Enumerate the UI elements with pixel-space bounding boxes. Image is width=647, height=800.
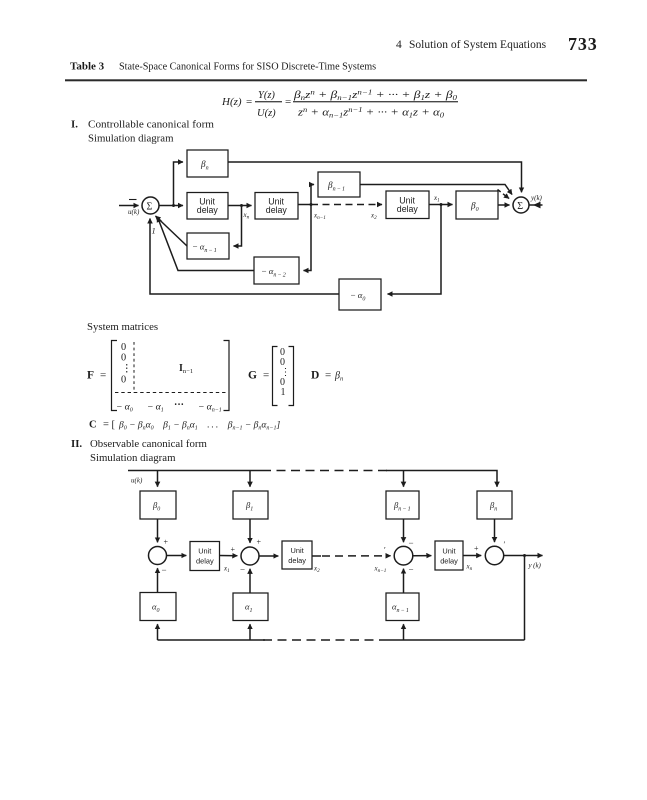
wire -a(n-1) to summer [156, 216, 188, 246]
svg-text:xn−1: xn−1 [313, 212, 326, 222]
gain an-1 [386, 593, 419, 621]
summer S2 [513, 197, 529, 213]
svg-text:4: 4 [396, 39, 402, 51]
svg-text:+: + [164, 538, 169, 547]
svg-text:−: − [162, 565, 167, 575]
svg-text:0: 0 [121, 375, 126, 386]
svg-text:α0: α0 [152, 602, 159, 615]
svg-text:u(k): u(k) [131, 477, 143, 485]
gain Bn [187, 150, 228, 177]
svg-text:− αn − 1: − αn − 1 [192, 242, 217, 255]
transfer function H(z) [221, 89, 458, 120]
svg-text:x1: x1 [433, 194, 440, 204]
svg-text:U(z): U(z) [257, 108, 276, 119]
gain -a0 [339, 279, 381, 310]
svg-text:xn: xn [466, 563, 473, 573]
svg-text:Unit: Unit [291, 546, 304, 555]
svg-text:βnzn + βn−1zn−1 + ··· + β1z +: βnzn + βn−1zn−1 + ··· + β1z + β0 [293, 89, 458, 103]
svg-text:− αn−1: − αn−1 [198, 402, 222, 414]
wire a1 to T2 [249, 569, 251, 593]
unit delay U3 [386, 191, 429, 219]
summer T3 [394, 546, 413, 565]
wire U2 out [298, 204, 311, 206]
svg-text:Controllable canonical form: Controllable canonical form [88, 119, 215, 131]
svg-text:y(k): y(k) [528, 562, 542, 570]
gain a0 [140, 593, 176, 621]
wire Bn to summer T4 [494, 519, 496, 542]
svg-text:xn−1: xn−1 [374, 565, 387, 575]
svg-text:=: = [100, 370, 106, 382]
matrix F dashed horizontal divider [115, 392, 226, 394]
wire B0 to output summer [498, 204, 510, 206]
svg-text:−: − [240, 565, 245, 575]
svg-text:=: = [263, 370, 269, 382]
node xn junction [240, 204, 243, 207]
wire an-1 to T3 [403, 569, 405, 593]
svg-text:In−1: In−1 [179, 363, 193, 375]
svg-text:···: ··· [174, 400, 184, 411]
svg-text:=: = [285, 96, 291, 108]
svg-text:x2: x2 [313, 565, 320, 575]
gain Bn-1 [386, 491, 419, 519]
wire drop to B0 [157, 471, 159, 487]
gain -a(n-2) [254, 257, 299, 284]
svg-text:I.: I. [71, 119, 78, 131]
gain Bn [477, 491, 512, 519]
svg-text:zn + αn−1zn−1 + ··· + α1z + α0: zn + αn−1zn−1 + ··· + α1z + α0 [297, 106, 445, 120]
wire V1 to T2 [220, 555, 238, 557]
svg-text:βn: βn [334, 371, 343, 383]
svg-text:Simulation diagram: Simulation diagram [88, 133, 174, 145]
matrix F right bracket [224, 341, 230, 411]
svg-text:delay: delay [288, 556, 306, 565]
matrix G left bracket [273, 347, 278, 406]
unit delay U2 [255, 193, 298, 220]
svg-text:II.: II. [71, 438, 82, 450]
wire output y(k) [529, 204, 543, 206]
svg-text:+: + [257, 538, 262, 547]
wire -a(n-2) to summer [158, 217, 255, 271]
matrix G right bracket [289, 347, 294, 406]
svg-text:Unit: Unit [198, 547, 211, 556]
wire bottom up to a1 [249, 624, 251, 640]
svg-text:+: + [231, 545, 236, 554]
wire drop to B1 [249, 471, 251, 487]
svg-text:0: 0 [121, 342, 126, 353]
node x1 junction [440, 203, 443, 206]
svg-text:Observable canonical form: Observable canonical form [90, 438, 208, 450]
unit delay V1 [190, 542, 220, 571]
wire B1 to summer T2 [249, 519, 251, 543]
svg-text:1: 1 [281, 387, 286, 398]
wire Bn-1 to summer T3 [403, 519, 405, 542]
svg-text:Y(z): Y(z) [258, 90, 275, 101]
svg-text:0: 0 [121, 353, 126, 364]
wire T2 to unit delay V2 [259, 555, 278, 557]
svg-text:=: = [325, 370, 331, 382]
wire dashed xn-1 to U3 [311, 204, 382, 206]
wire Bn to output summer [228, 162, 522, 192]
svg-text:Σ: Σ [517, 201, 523, 212]
svg-text:delay: delay [197, 205, 219, 215]
svg-text:β0 − βnα0 β1 − βnα1 . . . βn−1: β0 − βnα0 β1 − βnα1 . . . βn−1 − βnαn−1] [118, 421, 280, 432]
wire top bus left segment [128, 470, 262, 472]
svg-text:− α0: − α0 [116, 402, 133, 414]
wire bottom bus dashed middle [263, 639, 388, 641]
wire U3 to B0 [429, 204, 453, 206]
wire xn-1 down to a(n-2) [304, 205, 312, 271]
svg-text:βn − 1: βn − 1 [327, 180, 345, 193]
svg-text:y(k): y(k) [530, 194, 543, 202]
summer T1 [149, 547, 167, 565]
wire x1 down to a0 [388, 205, 442, 295]
svg-text:x2: x2 [370, 212, 377, 222]
wire dashed feed to output summer [498, 190, 510, 199]
node minus tick above input [129, 199, 137, 201]
gain -a(n-1) [187, 233, 229, 259]
svg-text:Table 3: Table 3 [70, 61, 105, 73]
wire summer to unit delay 1 [159, 205, 183, 207]
wire B0 to summer T1 [157, 519, 159, 542]
svg-text:F: F [87, 370, 94, 382]
unit delay V3 [435, 541, 463, 570]
svg-text:delay: delay [196, 556, 214, 565]
svg-text:delay: delay [397, 204, 419, 214]
gain B0 [140, 491, 176, 519]
node xn-1 junction [310, 203, 313, 206]
svg-text:− α1: − α1 [147, 402, 164, 414]
wire T1 to unit delay V1 [167, 555, 187, 557]
svg-text:⋮: ⋮ [122, 364, 132, 375]
wire U1 to U2 [228, 205, 252, 207]
wire V3 to T4 [463, 555, 481, 557]
summer T2 [241, 547, 259, 565]
gain B0 [456, 191, 498, 219]
wire output y(k) [504, 555, 543, 557]
matrix F left bracket [112, 341, 118, 411]
svg-text:State-Space Canonical Forms fo: State-Space Canonical Forms for SISO Dis… [119, 62, 376, 73]
wire top bus right segment into Bn [386, 471, 497, 487]
svg-text:β1: β1 [245, 500, 253, 513]
gain Bn-1 [318, 172, 360, 197]
table top rule [65, 79, 587, 81]
svg-text:delay: delay [440, 556, 458, 565]
svg-text:1: 1 [152, 226, 156, 236]
wire bottom up to an-1 [403, 624, 405, 640]
svg-text:−: − [409, 565, 414, 575]
wire T3 to unit delay V3 [413, 555, 432, 557]
gain a1 [233, 593, 268, 621]
svg-text:Simulation diagram: Simulation diagram [90, 452, 176, 464]
svg-text:= [: = [ [103, 420, 116, 431]
svg-text:=: = [246, 96, 252, 108]
svg-text:x1: x1 [223, 565, 230, 575]
wire a0 to T1 [157, 568, 159, 592]
svg-text:β0: β0 [152, 500, 160, 513]
svg-text:H(z): H(z) [221, 96, 242, 108]
wire V2 out short [312, 555, 321, 557]
svg-text:βn: βn [489, 500, 497, 513]
gain B1 [233, 491, 268, 519]
svg-text:−: − [409, 538, 414, 548]
svg-text:Solution of System Equations: Solution of System Equations [409, 39, 547, 51]
summer S1 [142, 197, 159, 214]
svg-text:delay: delay [266, 205, 288, 215]
svg-text:+: + [474, 544, 479, 553]
svg-text:βn − 1: βn − 1 [393, 500, 411, 513]
svg-text:Unit: Unit [442, 547, 455, 556]
svg-text:βn: βn [200, 159, 209, 172]
svg-text:Σ: Σ [147, 202, 153, 213]
wire branch up to Bn [174, 162, 184, 206]
svg-text:System matrices: System matrices [87, 321, 158, 333]
wire bottom bus right segment [388, 639, 525, 641]
wire drop to Bn-1 [403, 471, 405, 487]
wire Bn-1 to output summer [360, 185, 512, 195]
svg-text:D: D [311, 370, 319, 382]
svg-text:− α0: − α0 [350, 290, 365, 303]
node branch junction [172, 204, 175, 207]
svg-text:αn − 1: αn − 1 [392, 602, 409, 615]
summer T4 [485, 546, 503, 564]
wire bottom up to a0 [157, 624, 159, 640]
wire input u(k) [119, 205, 139, 207]
wire xn down to a(n-1) [234, 206, 242, 247]
svg-text:′: ′ [504, 540, 506, 549]
svg-text:733: 733 [568, 34, 598, 54]
svg-text:xn: xn [243, 211, 250, 221]
svg-text:′: ′ [384, 546, 386, 555]
matrix F dashed vertical divider [133, 342, 135, 393]
svg-text:− αn − 2: − αn − 2 [261, 266, 286, 279]
wire bottom bus left segment [158, 639, 266, 641]
svg-text:u(k): u(k) [128, 208, 140, 216]
svg-text:C: C [89, 420, 97, 431]
wire top bus dashed middle [262, 470, 388, 472]
node output junction [523, 554, 526, 557]
wire feedback down [524, 556, 526, 641]
svg-text:β0: β0 [470, 201, 479, 214]
unit delay V2 [282, 541, 312, 569]
svg-text:G: G [248, 370, 257, 382]
svg-text:α1: α1 [245, 602, 252, 615]
wire -a0 to summer [150, 219, 339, 295]
wire dashed middle to T3 [322, 555, 391, 557]
unit delay U1 [187, 193, 228, 220]
wire branch to Bn-1 [311, 185, 314, 205]
